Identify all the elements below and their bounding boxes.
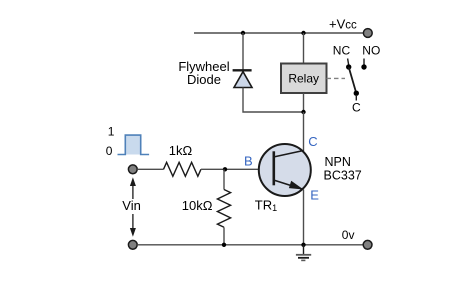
wire terminal to 1k: [137, 168, 163, 170]
svg-text:10kΩ: 10kΩ: [182, 198, 213, 213]
svg-text:+Vcc: +Vcc: [329, 17, 357, 32]
svg-text:0: 0: [106, 144, 113, 158]
wire common stub: [355, 96, 357, 101]
transistor TR1 base bar: [272, 151, 275, 185]
svg-text:BC337: BC337: [324, 169, 362, 183]
svg-text:0v: 0v: [342, 228, 355, 242]
relay K1 box: [281, 64, 327, 94]
wire top rail to relay: [303, 33, 305, 64]
svg-text:NPN: NPN: [325, 155, 351, 169]
wire emitter to ground rail: [303, 190, 305, 245]
ground bar 3: [301, 259, 305, 261]
svg-text:1kΩ: 1kΩ: [169, 143, 193, 158]
wire relay bottom to junction: [303, 93, 305, 112]
svg-text:B: B: [244, 153, 253, 168]
diode D1 cathode bar: [233, 69, 252, 71]
svg-text:C: C: [308, 134, 317, 149]
resistor R2 10k zigzag: [217, 190, 230, 228]
Vin measurement arrow down: [132, 214, 134, 230]
wire NC stub: [348, 59, 349, 65]
node NO contact: [361, 64, 366, 69]
wire NO stub: [363, 59, 365, 65]
terminal +Vcc: [363, 29, 372, 38]
svg-text:Vin: Vin: [122, 198, 141, 213]
Vin measurement arrow up: [132, 184, 134, 199]
node common contact: [354, 91, 359, 96]
node junction relay/diode/collector: [301, 110, 305, 114]
node junction top-left (diode tap): [241, 31, 245, 35]
terminal 0v: [363, 240, 372, 249]
switch SW1 lever: [349, 67, 357, 93]
ground bar 1: [296, 254, 311, 256]
node emitter/rail junction: [301, 243, 305, 247]
wire diode anode drop: [242, 33, 244, 70]
svg-text:C: C: [352, 101, 361, 115]
node junction top-right (relay tap): [301, 31, 305, 35]
transistor TR1 body: [259, 144, 311, 196]
node NC contact: [346, 64, 351, 69]
terminal Vin bottom: [128, 240, 137, 249]
svg-text:Relay: Relay: [288, 72, 319, 86]
pulse waveform trace: [118, 135, 150, 154]
pulse waveform fill: [125, 135, 140, 154]
svg-text:Diode: Diode: [187, 72, 221, 87]
transistor TR1 emitter arrowhead: [289, 181, 304, 190]
wire diode to relay bottom elbow: [243, 88, 304, 113]
wire top +Vcc rail: [194, 32, 363, 34]
transistor TR1 emitter stroke: [274, 180, 304, 190]
wire 10k to ground rail: [223, 227, 225, 245]
diode D1 triangle: [234, 72, 252, 88]
ground bar 2: [298, 257, 309, 259]
wire relay actuation dashed link: [327, 77, 346, 79]
terminal Vin top: [128, 165, 137, 174]
node base junction: [223, 167, 227, 171]
node 10k/rail junction: [222, 243, 226, 247]
svg-text:NC: NC: [333, 44, 351, 58]
wire bottom 0v rail: [137, 244, 363, 246]
wire 1k to base: [201, 168, 273, 170]
svg-text:1: 1: [108, 125, 115, 139]
wire junction to collector: [303, 112, 305, 151]
svg-text:E: E: [310, 188, 319, 203]
transistor TR1 collector stroke: [274, 151, 304, 158]
svg-text:NO: NO: [362, 44, 380, 58]
ground stub: [303, 245, 305, 255]
wire base junction to 10k: [223, 169, 225, 189]
resistor R1 1k zigzag: [164, 162, 201, 176]
